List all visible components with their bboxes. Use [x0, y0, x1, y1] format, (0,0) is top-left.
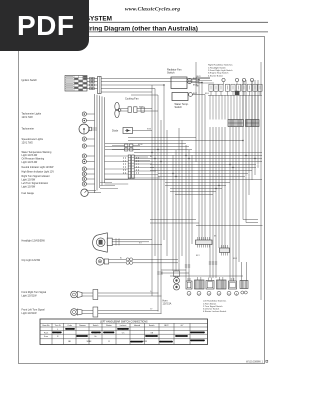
- svg-text:Lockout: Lockout: [120, 324, 127, 327]
- svg-text:BR/W: BR/W: [138, 144, 143, 146]
- svg-text:BK/Y: BK/Y: [196, 255, 201, 257]
- part number: [246, 360, 268, 364]
- svg-text:LEFT HANDLEBAR SWITCH CONNECTI: LEFT HANDLEBAR SWITCH CONNECTIONS: [100, 321, 148, 324]
- subtitle rule: [19, 31, 268, 33]
- svg-text:BK: BK: [150, 156, 153, 158]
- inline connectors: [157, 262, 217, 274]
- svg-text:Hi: Hi: [95, 336, 97, 338]
- svg-text:BK: BK: [214, 236, 217, 238]
- svg-text:Fuel Gauge: Fuel Gauge: [22, 192, 35, 195]
- label: Tachometer: [22, 128, 35, 131]
- svg-text:Dimmer: Dimmer: [79, 324, 86, 327]
- svg-text:12V2.5A: 12V2.5A: [163, 302, 172, 305]
- svg-text:Ignition Switch: Ignition Switch: [22, 79, 38, 82]
- svg-text:Horn: Horn: [163, 299, 169, 302]
- svg-text:On: On: [122, 332, 125, 334]
- wire junctions: [151, 79, 255, 189]
- right handlebar switch assembly: [196, 76, 262, 96]
- front right turn signal: [71, 290, 162, 300]
- svg-text:Cooling Fan: Cooling Fan: [125, 98, 139, 101]
- svg-text:1.Headlight Switch: 1.Headlight Switch: [208, 66, 227, 69]
- left switch housing connectors: [186, 277, 237, 289]
- label: Neutral Indicator Light 12V3W: [22, 166, 55, 169]
- radiator fan switch: [167, 69, 202, 89]
- cooling fan: [115, 98, 158, 118]
- svg-text:12V1.7W2: 12V1.7W2: [22, 116, 34, 119]
- svg-text:Tachometer: Tachometer: [22, 128, 35, 131]
- svg-text:Diode: Diode: [112, 130, 119, 133]
- ignition harness connector: [98, 77, 102, 94]
- meter connector pair: [112, 144, 140, 151]
- svg-text:www.ClassicCycles.org: www.ClassicCycles.org: [125, 6, 180, 12]
- svg-text:Horn Bu: Horn Bu: [43, 324, 50, 327]
- meter harness bus: [95, 94, 105, 193]
- ignition switch connector block: [65, 76, 87, 92]
- svg-text:Free: Free: [44, 335, 48, 338]
- svg-text:12V1.7W2: 12V1.7W2: [22, 141, 34, 144]
- label: Front Right Turn Signal: [22, 291, 47, 297]
- svg-text:Left Handlebar Switches: Left Handlebar Switches: [203, 300, 226, 303]
- svg-text:W/BK: W/BK: [87, 341, 93, 343]
- site url text: [125, 6, 180, 12]
- junction strip wires: [100, 156, 160, 189]
- svg-text:Switch: Switch: [149, 324, 155, 327]
- PDF badge: [0, 0, 89, 51]
- label: Speedometer Lights: [22, 138, 44, 144]
- fuel gauge: [81, 189, 101, 196]
- svg-text:R/BK: R/BK: [147, 129, 152, 131]
- svg-text:4.Starter Button: 4.Starter Button: [208, 74, 224, 77]
- svg-text:BK/Y: BK/Y: [164, 325, 169, 327]
- svg-text:3.Engine Stop Switch: 3.Engine Stop Switch: [208, 72, 229, 75]
- svg-text:Light 12V3W: Light 12V3W: [22, 185, 36, 188]
- front left turn signal: [71, 307, 162, 317]
- svg-text:BK: BK: [68, 341, 71, 343]
- vertical harness wires: [152, 62, 261, 314]
- label: High Beam Indicator Light 12V: [22, 170, 55, 173]
- diagram frame: [19, 37, 265, 364]
- heading rule: [19, 21, 268, 23]
- svg-text:Push: Push: [44, 332, 48, 334]
- label: Ignition Switch: [22, 79, 38, 82]
- label: Left Turn Signal Indicator: [22, 182, 49, 188]
- label: City Light 12V4W: [22, 259, 41, 262]
- svg-text:L: L: [57, 329, 58, 331]
- svg-text:Right Handlebar Switches: Right Handlebar Switches: [208, 64, 233, 67]
- tachometer gauge: [79, 124, 97, 134]
- label: Fuel Gauge: [22, 192, 35, 195]
- diode: [112, 128, 152, 134]
- svg-text:City Light 12V4W: City Light 12V4W: [22, 259, 41, 262]
- right switch connectors (hatched): [228, 120, 259, 127]
- subtitle Wiring Diagram: [82, 26, 198, 33]
- svg-text:W1J10088W 1: W1J10088W 1: [246, 360, 264, 364]
- label: Tachometer Lights: [22, 113, 42, 119]
- horizontal harness wires: [101, 79, 263, 277]
- svg-text:R: R: [57, 336, 59, 338]
- city light: [96, 257, 178, 265]
- label: Front Left Turn Signal: [22, 309, 45, 315]
- svg-text:Light 12V21W: Light 12V21W: [22, 294, 38, 297]
- svg-text:3.Dimmer Switch: 3.Dimmer Switch: [203, 308, 220, 311]
- svg-text:2.Turn Signal Switch: 2.Turn Signal Switch: [203, 305, 223, 308]
- svg-text:Light 12V3.4W: Light 12V3.4W: [22, 161, 38, 164]
- wire color labels: [120, 93, 238, 311]
- svg-text:Starter: Starter: [106, 324, 112, 327]
- svg-text:Turn Si: Turn Si: [55, 324, 62, 327]
- left handlebar switches list: [203, 300, 227, 313]
- svg-text:BK/G: BK/G: [205, 93, 210, 95]
- svg-text:Switch: Switch: [167, 72, 175, 75]
- svg-text:Neutral Indicator Light 12V3W: Neutral Indicator Light 12V3W: [22, 166, 55, 169]
- svg-text:High Beam Indicator Light 12V: High Beam Indicator Light 12V: [22, 170, 55, 173]
- headlight: [93, 233, 162, 252]
- right switch harness drops: [210, 95, 258, 120]
- svg-text:Light 12V21W: Light 12V21W: [22, 312, 38, 315]
- harness junction connectors: [196, 237, 230, 256]
- svg-text:Switch: Switch: [175, 106, 183, 109]
- meter harness junction strips: [128, 155, 134, 179]
- svg-text:1.Horn Button: 1.Horn Button: [203, 302, 217, 305]
- horn: [163, 271, 180, 305]
- heading ELECTRICAL SYSTEM: [44, 15, 112, 22]
- svg-text:Wiring Diagram (other than Aus: Wiring Diagram (other than Australia): [82, 26, 198, 33]
- ignition switch lead connectors: [87, 77, 98, 89]
- starter lockout connector: [240, 281, 248, 295]
- label: Headlight 12V60/55W: [22, 239, 46, 242]
- svg-text:Light 12V3W: Light 12V3W: [22, 178, 36, 181]
- svg-text:Switch: Switch: [93, 324, 99, 327]
- label: Right Turn Signal Indicator: [22, 175, 50, 181]
- svg-text:BK/R: BK/R: [233, 258, 238, 260]
- svg-text:Hazard: Hazard: [134, 324, 140, 327]
- svg-text:4.Starter Lockout Switch: 4.Starter Lockout Switch: [203, 310, 227, 313]
- svg-text:Color: Color: [67, 324, 72, 327]
- meter and indicator bulbs: [82, 112, 94, 186]
- svg-text:Headlight 12V60/55W: Headlight 12V60/55W: [22, 239, 46, 242]
- svg-text:R: R: [108, 341, 110, 343]
- svg-text:2.Front Right Light Switch: 2.Front Right Light Switch: [208, 69, 233, 72]
- left switch terminals: [187, 291, 238, 295]
- right handlebar switches list: [208, 64, 233, 78]
- label: Water Temperature Warning: [22, 151, 52, 164]
- water temperature switch: [172, 93, 205, 110]
- left handlebar switch connections table: [40, 319, 208, 345]
